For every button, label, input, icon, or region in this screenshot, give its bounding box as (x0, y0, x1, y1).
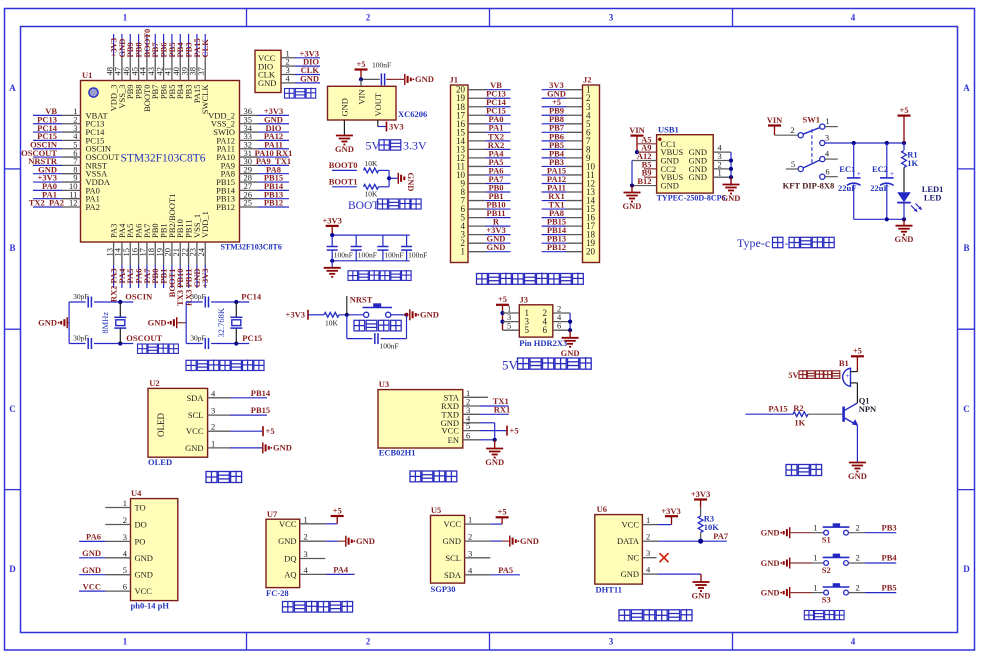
U3 pin1 STA stub (463, 396, 488, 398)
caption danpianji yinjiao waiyin paizhen (477, 273, 584, 285)
svg-text:OSCIN: OSCIN (125, 291, 153, 301)
svg-text:100nF: 100nF (334, 250, 353, 259)
net label PC14 (241, 291, 262, 301)
header J2 body (583, 75, 600, 263)
J2 pin 17 PB15 (542, 217, 596, 232)
U1 pin 4 PC15 (33, 131, 104, 145)
svg-text:SDA: SDA (186, 393, 204, 403)
U5 pin4 SDA wire PA5 (465, 565, 520, 575)
svg-text:5V: 5V (366, 139, 381, 153)
svg-text:VCC: VCC (186, 426, 204, 436)
svg-text:PB12: PB12 (547, 242, 566, 252)
svg-text:+3V3: +3V3 (286, 310, 305, 320)
U6 pin4 GND earth (642, 574, 710, 600)
svg-text:6: 6 (825, 166, 829, 176)
svg-text:+5: +5 (498, 294, 507, 304)
USB1 left pin A9 (637, 143, 657, 153)
svg-text:ECB02H1: ECB02H1 (379, 448, 416, 458)
U1 pin 42 PB6 (154, 34, 168, 99)
J1 pin 15 PA1 (456, 123, 511, 138)
svg-text:3: 3 (211, 406, 215, 416)
caption fuwei dianlu (354, 320, 401, 331)
USB1 left pin B5 (642, 159, 657, 169)
svg-text:GND: GND (415, 74, 434, 84)
U1 pin 20 PB2/BOOT1 (163, 194, 177, 298)
svg-text:GND: GND (895, 234, 914, 244)
capacitor 100nF filter 2 (351, 235, 377, 261)
svg-text:VIN: VIN (767, 115, 783, 125)
svg-text:PB12: PB12 (264, 198, 283, 208)
U6 pin2 DATA wire PA7 (642, 531, 728, 544)
svg-text:2: 2 (468, 532, 472, 542)
svg-text:8MHz: 8MHz (100, 312, 110, 334)
J3 right rail and earth (561, 313, 580, 358)
usb right gnd rail (722, 152, 741, 203)
J2 pin 10 PB3 (542, 157, 596, 172)
svg-text:1: 1 (123, 498, 127, 508)
svg-text:PC14: PC14 (241, 291, 262, 301)
U1 pin 44 BOOT0 (138, 29, 152, 112)
svg-text:GND: GND (621, 569, 639, 579)
svg-text:SCL: SCL (445, 553, 461, 563)
U1 pin 27 PB14 (216, 181, 289, 195)
capacitor 100nF filter 1 (327, 235, 353, 261)
J3 right pin 6 (553, 321, 570, 331)
download port pin 3 CLK (281, 65, 320, 75)
svg-text:U6: U6 (597, 504, 607, 514)
J2 pin 16 PA8 (542, 208, 596, 223)
svg-text:GND: GND (339, 98, 349, 116)
svg-text:J3: J3 (520, 294, 529, 304)
mcu U1 STM32F103C8T6 body (81, 70, 282, 252)
svg-text:+5: +5 (356, 59, 365, 69)
U1 pin 19 PB1 (154, 223, 168, 288)
U1 pin 48 VDD_3 (104, 34, 118, 111)
U1 pin 2 PC13 (33, 114, 104, 128)
caption duli anjian (804, 610, 844, 620)
U1 pin 3 PC14 (33, 123, 105, 137)
U7 pin4 AQ wire PA4 (300, 564, 355, 574)
USB1 left pin A5 (637, 134, 657, 144)
J2 pin 5 PB8 (542, 114, 591, 129)
J2 pin 3 +5 (542, 97, 591, 112)
svg-text:STM32F103C8T6: STM32F103C8T6 (221, 243, 282, 252)
U1 pin 47 VSS_3 (113, 34, 127, 109)
svg-text:USB1: USB1 (658, 124, 679, 134)
capacitor 100nF regulator input (372, 61, 404, 86)
svg-text:1: 1 (825, 116, 829, 126)
U1 pin 46 PB9 (121, 34, 135, 99)
connector download port body (255, 50, 281, 92)
U4 pin 6 wire (79, 581, 130, 591)
svg-text:6: 6 (543, 325, 548, 335)
svg-text:GND: GND (661, 181, 679, 191)
svg-text:PB14: PB14 (251, 388, 271, 398)
svg-text:25: 25 (244, 198, 253, 208)
U1 pin 41 PB5 (163, 34, 177, 99)
svg-text:FC-28: FC-28 (266, 588, 289, 598)
svg-text:GND: GND (278, 536, 296, 546)
svg-text:3: 3 (646, 548, 650, 558)
svg-text:VOUT: VOUT (373, 92, 383, 116)
regulator VOUT to 3V3 (378, 120, 404, 132)
svg-text:1: 1 (304, 514, 308, 524)
U1 pin 5 OSCIN (30, 139, 111, 153)
U1 pin 29 PA8 (221, 164, 289, 178)
svg-text:U1: U1 (82, 70, 92, 80)
caption turang shidu jiance (283, 601, 353, 612)
capacitor 30pF bottom 32.768K (186, 334, 249, 350)
svg-text:U4: U4 (131, 488, 142, 498)
USB1 left pin A12 (632, 151, 657, 161)
U7 pin2 GND port (300, 536, 375, 547)
svg-text:2: 2 (856, 522, 860, 532)
U1 pin 36 VDD_2 (208, 106, 289, 120)
J1 pin 10 PA6 (456, 165, 511, 180)
svg-text:U2: U2 (149, 378, 159, 388)
svg-text:NRST: NRST (350, 294, 373, 304)
filter caps earth (324, 261, 341, 277)
svg-text:2: 2 (856, 582, 860, 592)
U1 pin 14 PA4 (113, 223, 127, 288)
svg-text:4: 4 (851, 13, 856, 23)
svg-text:5: 5 (507, 321, 511, 331)
svg-text:DQ: DQ (284, 554, 296, 564)
svg-text:GND: GND (38, 318, 57, 328)
power +5 led rail (898, 105, 911, 143)
net label PA15 and resistor R2 1K (746, 403, 843, 428)
svg-text:SDA: SDA (444, 570, 462, 580)
display U2 OLED body (148, 378, 216, 467)
download port pin 1 +3V3 (281, 48, 320, 58)
svg-text:GND: GND (561, 348, 580, 358)
regulator U? XC6206 body (328, 86, 428, 120)
transistor emitter earth (848, 463, 867, 482)
U1 pin 7 NRST (28, 156, 108, 170)
J1 pin 9 PA7 (461, 174, 511, 189)
svg-text:GND: GND (258, 78, 276, 88)
reset gnd port (410, 309, 439, 320)
caption xianshiping (206, 471, 242, 483)
svg-text:3: 3 (609, 637, 614, 647)
U1 pin 34 SWIO (213, 123, 289, 137)
U1 pin 45 PB8 (129, 34, 143, 99)
U3 pin2 RXD wire TX1 (463, 396, 509, 406)
U1 pin 23 VSS_1 (188, 214, 202, 288)
svg-text:12: 12 (69, 198, 78, 208)
svg-text:RX1: RX1 (494, 405, 511, 415)
U2 pin1 GND port (208, 442, 292, 453)
svg-text:2: 2 (856, 553, 860, 563)
capacitor 100nF filter 4 (401, 235, 427, 261)
svg-text:GND: GND (406, 173, 416, 192)
USB1 right pin 2 (713, 159, 731, 169)
U3 pin4 GND wire (463, 423, 495, 440)
U1 pin 11 PA1 (33, 189, 100, 203)
resistor R1 1K (902, 143, 919, 192)
svg-text:A: A (9, 83, 16, 93)
svg-text:TYPEC-250D-8CP6: TYPEC-250D-8CP6 (657, 194, 726, 203)
svg-text:+: + (857, 169, 861, 178)
svg-text:1: 1 (468, 515, 472, 525)
svg-text:VCC: VCC (135, 586, 153, 596)
J3 left pin 3 (503, 312, 520, 322)
svg-text:1: 1 (813, 553, 817, 563)
svg-text:B1: B1 (839, 358, 849, 368)
download port pin 2 DIO (281, 57, 320, 67)
crystal circuit 8MHz gnd port (38, 317, 69, 328)
svg-text:GND: GND (82, 548, 101, 558)
svg-text:EC1: EC1 (839, 164, 855, 174)
J1 pin 19 PC13 (456, 89, 511, 104)
svg-text:30pF: 30pF (190, 334, 205, 343)
svg-text:10K: 10K (365, 189, 379, 198)
U3 pin6 EN wire and earth (463, 438, 504, 467)
USB1 right pin 1 (713, 168, 731, 178)
J1 pin 16 PA0 (456, 114, 511, 129)
svg-text:BOOT0: BOOT0 (329, 160, 358, 170)
button S1 gnd port (761, 527, 812, 538)
switch SW1 KFT DIP-8X8 (783, 115, 838, 191)
svg-text:100nF: 100nF (408, 250, 427, 259)
U1 pin 26 PB13 (216, 189, 289, 203)
svg-text:GND: GND (520, 536, 539, 546)
U1 pin 8 VSSA (33, 164, 108, 178)
svg-text:GND: GND (356, 536, 375, 546)
capacitor 100nF reset (347, 315, 407, 351)
svg-text:+5: +5 (899, 105, 908, 115)
svg-text:100nF: 100nF (380, 341, 399, 350)
svg-text:+5: +5 (498, 507, 507, 517)
svg-text:+: + (890, 169, 894, 178)
svg-text:PB4: PB4 (882, 553, 898, 563)
svg-text:5: 5 (525, 325, 530, 335)
svg-text:SCL: SCL (188, 410, 204, 420)
pushbutton S1 (812, 522, 897, 544)
power +3V3 filter caps (322, 215, 341, 235)
svg-text:D: D (9, 564, 16, 574)
caption xiazaikou (285, 88, 316, 98)
svg-text:B12: B12 (637, 176, 651, 186)
J1 pin 3 +3V3 (461, 225, 511, 240)
svg-text:3: 3 (123, 532, 127, 542)
svg-text:5: 5 (791, 159, 795, 169)
svg-text:2: 2 (123, 515, 127, 525)
sensor U5 SGP30 body (431, 505, 474, 594)
J2 pin 13 PA11 (542, 182, 596, 197)
svg-text:TX2 PA2: TX2 PA2 (29, 198, 64, 208)
svg-text:EC2: EC2 (872, 164, 888, 174)
svg-text:5V: 5V (788, 370, 799, 380)
power +5 J3 (496, 294, 509, 330)
U1 pin 28 PB15 (216, 173, 289, 187)
capacitor 100nF filter 3 (377, 235, 403, 261)
J1 pin 6 PB10 (461, 199, 511, 214)
U1 pin 10 PA0 (33, 181, 100, 195)
svg-text:GND: GND (761, 587, 780, 597)
svg-text:B: B (9, 243, 15, 253)
svg-text:NPN: NPN (859, 404, 877, 414)
svg-text:GND: GND (487, 242, 506, 252)
caption 5V jiangya 3.3V (366, 139, 428, 153)
svg-text:3: 3 (468, 548, 472, 558)
svg-text:+5: +5 (510, 425, 519, 435)
resistor 10K BOOT1 (364, 178, 390, 198)
U4 pin 3 wire (79, 532, 130, 542)
net label BOOT1 (329, 176, 358, 187)
transistor Q1 NPN (844, 383, 877, 463)
J3 left pin 5 (503, 321, 520, 331)
header J1 body (450, 75, 469, 263)
U2 pin3 SCL wire PB15 (208, 405, 271, 415)
net label OSCIN (125, 291, 153, 301)
U1 pin 12 PA2 (29, 198, 100, 212)
svg-text:6: 6 (466, 430, 470, 440)
crystal 32.768K (216, 302, 243, 344)
crystal 8MHz (100, 302, 127, 344)
wire sw1 pin3 to rail (825, 141, 906, 145)
svg-text:+5: +5 (853, 346, 862, 356)
svg-text:ph0-14 pH: ph0-14 pH (131, 600, 170, 610)
J1 pin 13 RX2 (456, 140, 511, 155)
svg-text:3V3: 3V3 (389, 121, 404, 131)
svg-text:VCC: VCC (83, 581, 101, 591)
svg-text:22uF: 22uF (838, 183, 856, 193)
J1 pin 20 VB (456, 80, 511, 95)
U4 pin 2 wire (105, 524, 130, 526)
U3 pin5 VCC +5 (463, 425, 519, 435)
J3 right pin 4 (553, 312, 570, 322)
ground port near cap (405, 74, 434, 85)
U1 pin 22 PB11 (179, 219, 193, 306)
U1 pin 25 PB12 (216, 198, 289, 212)
resistor 10K reset (324, 312, 364, 327)
svg-text:GND: GND (300, 73, 319, 83)
svg-text:PB12: PB12 (216, 202, 235, 212)
svg-text:PA15: PA15 (768, 404, 787, 414)
U1 pin 43 PB7 (146, 34, 160, 99)
svg-text:100nF: 100nF (358, 250, 377, 259)
svg-text:PC15: PC15 (242, 333, 262, 343)
svg-text:1K: 1K (794, 417, 805, 427)
J2 pin 4 PB9 (542, 106, 591, 121)
U1 pin 30 PA9 (221, 156, 291, 170)
svg-text:GND: GND (623, 201, 642, 211)
svg-text:24: 24 (196, 247, 206, 256)
svg-text:GND: GND (848, 471, 867, 481)
power VIN switch (767, 115, 798, 135)
resistor R3 10K (698, 514, 719, 542)
svg-text:20: 20 (586, 247, 596, 257)
svg-text:GND: GND (761, 558, 780, 568)
capacitor 30pF top 32.768K (186, 292, 249, 308)
J2 pin 2 GND (542, 89, 591, 104)
svg-text:10K: 10K (365, 159, 379, 168)
svg-text:GND: GND (420, 310, 439, 320)
svg-text:TO: TO (135, 503, 146, 513)
regulator GND pin earth (335, 120, 354, 154)
J1 pin 5 PB11 (461, 208, 511, 223)
J1 pin 4 R (461, 217, 511, 232)
svg-text:OLED: OLED (156, 413, 166, 437)
svg-text:B: B (963, 243, 969, 253)
USB1 left pin B9 (642, 168, 657, 178)
svg-text:S2: S2 (822, 565, 831, 575)
filter cap rails (330, 233, 410, 263)
svg-text:5V: 5V (502, 357, 519, 372)
svg-text:PA5: PA5 (498, 565, 513, 575)
U1 pin 1 VBAT (33, 106, 109, 120)
svg-text:DO: DO (135, 520, 147, 530)
svg-text:U7: U7 (267, 509, 278, 519)
svg-text:AQ: AQ (284, 569, 296, 579)
power VIN usb (629, 125, 645, 154)
svg-text:OLED: OLED (148, 457, 172, 467)
net label NRST (347, 294, 373, 315)
USB1 left pin B12 (632, 176, 657, 186)
power +5 regulator input (355, 59, 368, 80)
svg-text:DHT11: DHT11 (596, 584, 622, 594)
svg-text:1K: 1K (907, 158, 918, 168)
svg-text:BOOT1: BOOT1 (329, 176, 358, 186)
svg-text:1: 1 (123, 637, 128, 647)
J1 pin 1 GND (461, 242, 511, 257)
svg-text:GND: GND (135, 570, 153, 580)
J1 pin 8 PB0 (461, 182, 511, 197)
U1 pin 24 VDD_1 (196, 211, 210, 288)
U7 pin3 DQ stub (300, 558, 326, 560)
U1 pin 35 VSS_2 (211, 114, 289, 128)
net label OSCOUT (126, 333, 162, 343)
svg-text:PA7: PA7 (713, 531, 729, 541)
power +3V3 reset (286, 310, 324, 320)
svg-text:3.3V: 3.3V (403, 139, 427, 153)
svg-text:DATA: DATA (617, 536, 640, 546)
usb left gnd rail (623, 161, 642, 212)
svg-text:PA4: PA4 (333, 564, 349, 574)
svg-text:U3: U3 (379, 379, 389, 389)
caption lanya mokuai (410, 470, 457, 482)
svg-text:1: 1 (813, 582, 817, 592)
svg-text:PB5: PB5 (882, 582, 897, 592)
svg-text:GND: GND (761, 528, 780, 538)
svg-text:EN: EN (448, 435, 459, 445)
svg-text:GND: GND (135, 553, 153, 563)
svg-text:-: - (785, 238, 789, 250)
pushbutton S2 (812, 553, 897, 575)
svg-text:6: 6 (557, 321, 561, 331)
svg-text:32.768K: 32.768K (216, 307, 226, 337)
svg-text:30pF: 30pF (73, 334, 88, 343)
capacitor EC1 22uF (838, 143, 861, 219)
svg-text:SGP30: SGP30 (431, 584, 456, 594)
U1 pin 16 PA6 (129, 224, 143, 288)
svg-text:37: 37 (196, 67, 206, 76)
resistor 10K BOOT0 (364, 159, 390, 178)
caption Type-c kou dianyuan dianlu (737, 236, 834, 250)
svg-text:100nF: 100nF (372, 61, 391, 70)
svg-text:6: 6 (123, 582, 127, 592)
svg-text:VDD_1: VDD_1 (200, 211, 210, 238)
svg-text:GND: GND (485, 457, 504, 467)
svg-text:1: 1 (646, 515, 650, 525)
J2 pin 14 RX1 (542, 191, 596, 206)
svg-text:GND: GND (82, 565, 101, 575)
U5 pin1 VCC +5 (465, 507, 509, 524)
header J3 body (519, 294, 567, 348)
pushbutton reset (363, 303, 409, 317)
J1 pin 2 GND (461, 234, 511, 249)
